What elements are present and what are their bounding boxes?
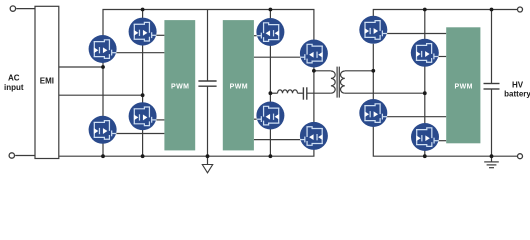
svg-text:PWM: PWM [171,83,189,90]
earth ground symbol [484,162,499,168]
svg-text:HV: HV [512,81,524,90]
junction bottom rail at C3 [490,154,494,158]
wire top rail primary side [103,10,314,54]
inductor L1 [278,90,298,93]
transistor Q3 [89,116,117,144]
wire gate Q11 to PWM3 [384,116,447,118]
transistor Q5 [256,18,284,46]
junction node A [101,65,105,69]
wire bottom rail secondary side [373,127,517,156]
transistor Q9 [359,16,387,44]
wire AC top terminal lead [16,8,35,10]
junction node C [269,91,273,95]
wire AC bottom terminal lead [15,155,35,157]
svg-text:PWM: PWM [455,83,473,90]
wire DC link capacitor branch [207,10,209,82]
junction top rail at Q10 leg [423,8,427,12]
junction bottom rail at Q7 leg [269,154,273,158]
wire bridge3 right leg [424,10,426,157]
transistor Q6 [300,40,328,68]
wire gate Q2 to PWM1 [153,34,164,36]
svg-text:input: input [4,83,24,92]
junction node E [371,69,375,73]
svg-text:battery: battery [504,90,530,99]
wire transformer primary top to node D [314,70,331,72]
junction node F [423,91,427,95]
PWM controller 3 [446,27,480,143]
junction bottom rail at Q4 leg [141,154,145,158]
wire gate Q4 to PWM1 [153,119,164,121]
AC input terminal top [10,6,15,11]
junction node B [141,93,145,97]
transistor Q4 [129,102,157,130]
AC input terminal bottom [9,153,14,158]
transistor Q2 [129,18,157,46]
wire EMI output lower to node B [59,94,143,96]
junction bottom rail at Q12 leg [423,154,427,158]
wire gate Q6 to PWM2 [254,56,303,58]
wire bridge1 left leg [102,35,104,156]
HV terminal top [518,7,523,12]
PWM controller 1 [164,20,195,150]
EMI filter block [35,6,59,158]
wire series capacitor to transformer primary bottom [307,92,331,94]
transistor Q7 [256,102,284,130]
wire transformer secondary bottom to node F [345,92,425,94]
transistor Q12 [411,123,439,151]
wire gate Q7 to PWM2 [254,118,260,120]
wire gate Q3 to PWM1 [113,133,164,135]
wire top rail secondary side [373,10,517,30]
transistor Q1 [89,35,117,63]
wire transformer secondary top to node E [345,70,374,72]
wire gate Q10 to PWM3 [435,56,446,58]
wire EMI output upper to node A [59,66,103,68]
wire bottom rail primary side [59,136,314,156]
transistor Q11 [359,99,387,127]
wire bridge1 right leg [142,10,144,157]
wire gate Q1 to PWM1 [113,52,164,54]
capacitor C3 HV bus [484,84,500,90]
capacitor C2 series resonant [303,87,306,99]
svg-text:PWM: PWM [230,83,248,90]
wire HV battery capacitor branch [491,10,493,84]
svg-text:EMI: EMI [40,77,54,86]
capacitor C1 DC link [198,81,216,86]
junction node D [312,69,316,73]
wire node C to inductor [270,92,277,94]
junction top rail at C3 [490,8,494,12]
wire bridge2 right leg mid [313,54,315,136]
wire inductor to series capacitor [298,92,303,94]
junction bottom rail at Q3 leg [101,154,105,158]
wire bridge3 left leg [372,44,374,127]
transformer T1 secondary winding [340,71,344,93]
PWM controller 2 [223,20,254,150]
transformer T1 primary winding [331,71,335,93]
wire ground stub [207,156,209,164]
wire bridge2 left leg [269,10,271,157]
junction bottom rail at ground [206,154,210,158]
transformer T1 core [337,67,339,98]
wire gate Q9 to PWM3 [384,33,447,35]
wire gate Q5 to PWM2 [254,35,260,37]
svg-text:AC: AC [8,74,20,83]
transistor Q8 [300,122,328,150]
junction top rail at Q2 leg [141,8,145,12]
HV terminal bottom [518,154,523,159]
ground chassis symbol [202,165,212,173]
transistor Q10 [411,39,439,67]
wire gate Q8 to PWM2 [254,139,303,141]
wire gate Q12 to PWM3 [435,140,446,142]
junction top rail at Q5 leg [269,8,273,12]
